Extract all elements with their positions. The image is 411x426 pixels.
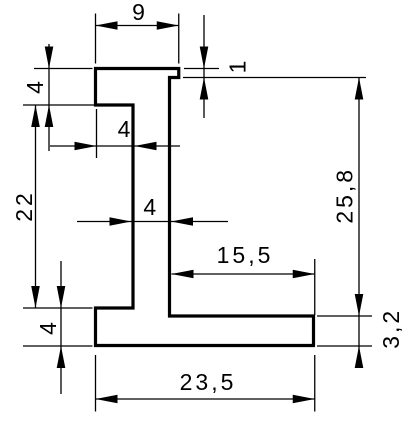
dimension 4 upper-left: dimension line bbox=[48, 44, 50, 151]
dimension 1 / 25.8: extension line shared bbox=[183, 77, 366, 79]
dimension 4 upper-left: arrow up bbox=[45, 105, 54, 127]
svg-text:4: 4 bbox=[22, 78, 48, 94]
dimension 4 middle: extension line bbox=[96, 109, 98, 158]
dimension 4 lower-left: extension line bottom bbox=[23, 345, 93, 347]
dimension 23.5: extension line right bbox=[314, 355, 316, 412]
dimension 15.5: arrow left bbox=[172, 270, 194, 279]
svg-text:4: 4 bbox=[143, 194, 159, 220]
dimension 4 lower-left: dimension line bbox=[60, 261, 62, 394]
dimension 25.8 / 3.2: dimension line bbox=[358, 78, 360, 369]
dimension 4 middle: arrow left bbox=[135, 142, 157, 151]
dimension 3.2: extension line bottom bbox=[317, 345, 372, 347]
dimension 4 lower-left: arrow up bbox=[57, 346, 66, 368]
svg-text:3,2: 3,2 bbox=[378, 308, 404, 349]
dimension 25.8: arrow down bbox=[355, 294, 364, 316]
dimension 9: arrow left bbox=[96, 21, 118, 30]
dimension 25.8: arrow up bbox=[355, 78, 364, 100]
dimension 4 stem: arrow right bbox=[110, 217, 132, 226]
dimension 1: arrow down bbox=[200, 47, 209, 69]
dimension 3.2: arrow up bbox=[355, 346, 364, 368]
dimension 9: arrow right bbox=[157, 21, 179, 30]
dimension 4 lower-left: arrow down bbox=[57, 286, 66, 308]
dimension 4 stem: dimension line bbox=[77, 221, 228, 223]
dimension 4 middle: dimension line bbox=[50, 145, 180, 147]
dimension 1: extension line top bbox=[184, 68, 219, 70]
dimension 23.5: extension line left bbox=[95, 355, 97, 412]
dimension 4 stem: arrow left bbox=[171, 217, 193, 226]
svg-text:4: 4 bbox=[118, 116, 134, 142]
dimension 1: dimension line bbox=[203, 15, 205, 118]
dimension 23.5: arrow right bbox=[293, 395, 315, 404]
svg-text:1: 1 bbox=[225, 58, 251, 74]
dimension 4 upper-left: arrow down bbox=[45, 47, 54, 69]
dimension 4 middle: arrow right bbox=[75, 142, 97, 151]
dimension 25.8: extension line bottom bbox=[317, 315, 372, 317]
svg-text:23,5: 23,5 bbox=[180, 369, 237, 395]
svg-text:9: 9 bbox=[132, 0, 148, 25]
svg-text:4: 4 bbox=[35, 319, 61, 335]
dimension 22: extension line bottom bbox=[23, 307, 93, 309]
dimension 15.5: arrow right bbox=[293, 270, 315, 279]
dimension 23.5: arrow left bbox=[96, 395, 118, 404]
dimension 15.5: dimension line bbox=[172, 273, 315, 275]
dimension 22: arrow up bbox=[31, 105, 40, 127]
dimension 22: dimension line bbox=[35, 105, 37, 308]
profile outline bbox=[96, 69, 314, 346]
dimension 9: extension line right bbox=[178, 14, 180, 64]
dimension 1: arrow up bbox=[200, 78, 209, 100]
svg-text:15,5: 15,5 bbox=[217, 242, 274, 268]
dimension 9: dimension line bbox=[96, 25, 179, 27]
dimension 15.5: extension line right bbox=[314, 259, 316, 315]
svg-text:25,8: 25,8 bbox=[332, 167, 358, 224]
svg-text:22: 22 bbox=[11, 190, 37, 222]
dimension 23.5: dimension line bbox=[96, 398, 315, 400]
dimension 22: arrow down bbox=[31, 286, 40, 308]
dimension 9: extension line left bbox=[95, 14, 97, 64]
dimension 4 upper-left: extension line top bbox=[34, 68, 93, 70]
dimension 4 upper-left / 22: extension line shared bbox=[23, 104, 96, 106]
